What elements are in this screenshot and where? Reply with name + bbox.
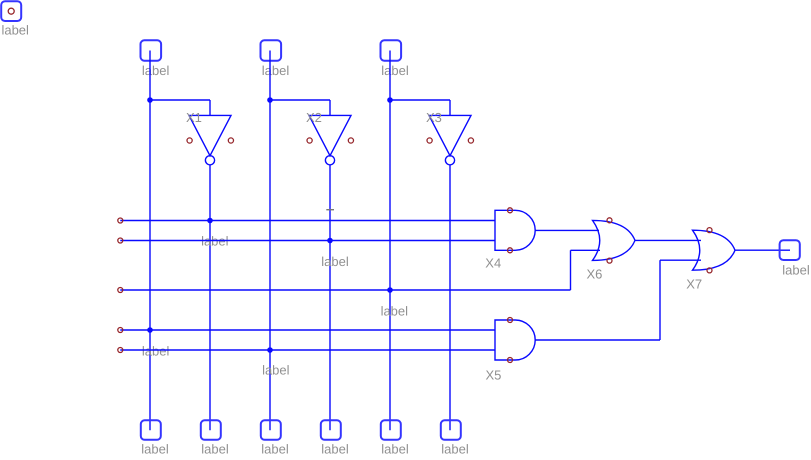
X4 top pin marker xyxy=(508,208,513,213)
inverter X3 left pin marker xyxy=(427,138,432,143)
wire X3 input vertical drop xyxy=(449,100,451,115)
svg-text:label: label xyxy=(782,262,810,277)
svg-text:X4: X4 xyxy=(485,255,501,270)
bottom terminal B4 xyxy=(321,420,341,440)
svg-text:label: label xyxy=(321,254,349,269)
wire X4 output to X6 upper input xyxy=(535,229,599,231)
wire column 5 vertical down to bottom terminal B5 xyxy=(389,100,391,430)
svg-text:label: label xyxy=(381,63,409,78)
open wire end marker (120,240) xyxy=(118,238,123,243)
wire column 3 vertical down to bottom terminal B3 xyxy=(269,100,271,430)
wire T1 down to column 1 junction xyxy=(149,51,151,101)
wire X2 input horizontal from node B xyxy=(270,99,330,101)
open wire end marker (120,350) xyxy=(118,348,123,353)
bottom terminal B2 xyxy=(201,420,221,440)
svg-text:label: label xyxy=(381,303,409,318)
wire X2 input vertical drop xyxy=(329,100,331,115)
node A junction dot (150,100) xyxy=(147,97,153,103)
open wire end marker (120,330) xyxy=(118,328,123,333)
inverter X1 left pin marker xyxy=(187,138,192,143)
wire X7 output to output terminal xyxy=(735,249,790,251)
svg-text:label: label xyxy=(262,362,290,377)
inverter X1 output bubble xyxy=(205,156,214,165)
node E junction dot (330,240) xyxy=(327,238,333,244)
wire row y=350 to X5 lower input xyxy=(120,349,495,351)
svg-text:X6: X6 xyxy=(587,266,603,281)
inverter X3 output bubble xyxy=(445,156,454,165)
wire into X7 lower input xyxy=(660,259,701,261)
X6 bottom pin marker xyxy=(607,258,612,263)
AND gate X4 xyxy=(495,210,535,250)
wire X5 output xyxy=(535,339,660,341)
input pin P1 (top-left lone terminal) xyxy=(1,1,21,21)
input terminal T1 xyxy=(141,40,162,60)
wire row y=330 to X5 upper input xyxy=(120,329,495,331)
svg-text:label: label xyxy=(142,63,170,78)
node F junction dot (390,290) xyxy=(387,287,393,293)
bottom terminal B5 xyxy=(381,420,401,440)
inverter X2 right pin marker xyxy=(348,138,353,143)
inverter X3 triangle xyxy=(429,115,471,155)
svg-text:label: label xyxy=(142,344,170,359)
OR gate X6 xyxy=(593,220,636,260)
wire X1 output vertical down to bottom terminal B2 xyxy=(209,165,211,430)
wire into X6 lower input xyxy=(571,249,601,251)
wire T3 down to column 5 junction xyxy=(389,51,391,101)
open wire end marker (120,220) xyxy=(118,218,123,223)
node D junction dot (210,220) xyxy=(207,218,213,224)
svg-text:label: label xyxy=(321,441,349,456)
wire row 290 riser up to X6 lower input xyxy=(570,250,572,290)
svg-text:label: label xyxy=(201,441,229,456)
wire X6 output to X7 upper input xyxy=(635,239,701,241)
wire X1 input horizontal from node A xyxy=(150,99,210,101)
input terminal T3 xyxy=(381,40,402,60)
svg-text:label: label xyxy=(381,441,409,456)
wire X1 input vertical drop xyxy=(209,100,211,115)
inverter X2 output bubble xyxy=(325,156,334,165)
output terminal TO xyxy=(780,240,800,260)
svg-text:label: label xyxy=(441,441,469,456)
svg-text:X7: X7 xyxy=(686,277,702,292)
wire X3 input horizontal from node C xyxy=(390,99,450,101)
wire T2 down to column 3 junction xyxy=(269,51,271,101)
svg-text:X1: X1 xyxy=(186,110,202,125)
gray tick marker on column 4 wire xyxy=(326,209,334,211)
X4 bottom pin marker xyxy=(508,248,513,253)
wire X3 output vertical down to bottom terminal B6 xyxy=(449,165,451,430)
svg-text:label: label xyxy=(261,441,289,456)
svg-text:X3: X3 xyxy=(426,110,442,125)
svg-text:label: label xyxy=(1,23,29,38)
bottom terminal B1 xyxy=(141,420,161,440)
bottom terminal B6 xyxy=(441,420,461,440)
input terminal T2 xyxy=(261,40,282,60)
svg-text:label: label xyxy=(262,63,290,78)
wire row y=290 xyxy=(120,289,570,291)
X7 top pin marker xyxy=(707,228,712,233)
AND gate X5 xyxy=(495,320,535,360)
wire column 1 vertical down to bottom terminal B1 xyxy=(149,100,151,430)
X6 top pin marker xyxy=(607,218,612,223)
X7 bottom pin marker xyxy=(707,268,712,273)
wire X5 output riser up xyxy=(659,260,661,340)
node C junction dot (390,100) xyxy=(387,97,393,103)
node H junction dot (270,350) xyxy=(267,347,273,353)
svg-text:X5: X5 xyxy=(486,368,502,383)
svg-text:X2: X2 xyxy=(306,110,322,125)
wire row y=240 to X4 lower input xyxy=(120,240,495,242)
OR gate X7 xyxy=(693,230,736,270)
node G junction dot (150,330) xyxy=(147,327,153,333)
wire X2 output vertical down to bottom terminal B4 xyxy=(329,165,331,430)
inverter X2 triangle xyxy=(309,115,351,155)
inverter X1 triangle xyxy=(189,115,231,155)
X5 bottom pin marker xyxy=(508,358,513,363)
inverter X2 left pin marker xyxy=(307,138,312,143)
svg-text:label: label xyxy=(141,441,169,456)
bottom terminal B3 xyxy=(261,420,281,440)
node B junction dot (270,100) xyxy=(267,97,273,103)
wire row y=220 to X4 upper input xyxy=(120,220,495,222)
open wire end marker (120,290) xyxy=(118,288,123,293)
inverter X1 right pin marker xyxy=(228,138,233,143)
X5 top pin marker xyxy=(508,318,513,323)
inverter X3 right pin marker xyxy=(468,138,473,143)
